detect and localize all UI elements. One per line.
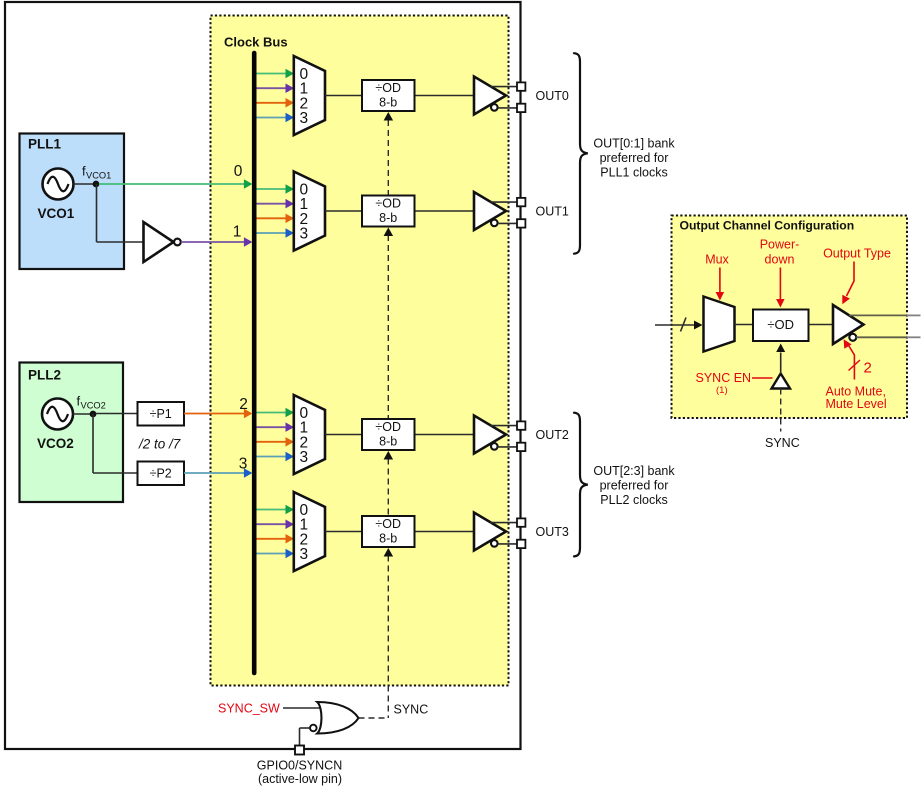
svg-text:2: 2: [239, 396, 248, 413]
svg-text:8-b: 8-b: [379, 96, 397, 110]
svg-text:÷OD: ÷OD: [375, 197, 401, 211]
svg-text:0: 0: [234, 163, 243, 180]
svg-text:Clock Bus: Clock Bus: [224, 35, 288, 50]
svg-text:÷P1: ÷P1: [150, 407, 172, 421]
svg-text:/2 to /7: /2 to /7: [138, 437, 181, 452]
svg-text:PLL1: PLL1: [28, 137, 61, 152]
svg-text:Mux: Mux: [705, 253, 729, 267]
svg-text:OUT[0:1] bank: OUT[0:1] bank: [593, 137, 675, 151]
svg-text:Output Channel Configuration: Output Channel Configuration: [680, 219, 855, 233]
svg-text:SYNC_SW: SYNC_SW: [218, 702, 280, 716]
svg-text:OUT2: OUT2: [536, 428, 569, 442]
svg-text:OUT0: OUT0: [536, 89, 569, 103]
svg-text:GPIO0/SYNCN: GPIO0/SYNCN: [257, 759, 342, 773]
svg-text:Output Type: Output Type: [823, 247, 891, 261]
svg-text:PLL1 clocks: PLL1 clocks: [600, 166, 667, 180]
svg-text:8-b: 8-b: [379, 211, 397, 225]
svg-text:VCO2: VCO2: [81, 401, 106, 411]
svg-text:PLL2 clocks: PLL2 clocks: [600, 493, 667, 507]
svg-text:VCO1: VCO1: [38, 206, 75, 221]
svg-text:Mute Level: Mute Level: [826, 397, 887, 411]
svg-text:(active-low pin): (active-low pin): [258, 772, 342, 786]
svg-text:÷P2: ÷P2: [150, 467, 172, 481]
svg-text:SYNC: SYNC: [394, 703, 429, 717]
svg-text:÷OD: ÷OD: [375, 420, 401, 434]
svg-text:down: down: [765, 253, 795, 267]
svg-text:OUT1: OUT1: [536, 205, 569, 219]
svg-text:3: 3: [239, 456, 248, 473]
svg-text:3: 3: [300, 546, 309, 563]
svg-text:8-b: 8-b: [379, 435, 397, 449]
svg-text:OUT[2:3] bank: OUT[2:3] bank: [593, 464, 675, 478]
svg-text:3: 3: [300, 110, 309, 127]
svg-text:VCO2: VCO2: [37, 436, 74, 451]
svg-text:SYNC: SYNC: [765, 436, 800, 450]
svg-text:SYNC EN: SYNC EN: [696, 371, 752, 385]
svg-text:OUT3: OUT3: [536, 525, 569, 539]
svg-text:8-b: 8-b: [379, 532, 397, 546]
svg-text:÷OD: ÷OD: [767, 317, 794, 332]
svg-text:2: 2: [864, 360, 872, 377]
svg-text:(1): (1): [716, 385, 728, 396]
svg-text:VCO1: VCO1: [86, 171, 111, 181]
svg-text:preferred for: preferred for: [600, 479, 669, 493]
svg-text:÷OD: ÷OD: [375, 517, 401, 531]
svg-text:3: 3: [300, 449, 309, 466]
svg-text:3: 3: [300, 226, 309, 243]
svg-text:PLL2: PLL2: [28, 368, 61, 383]
svg-text:1: 1: [233, 224, 242, 241]
svg-text:preferred for: preferred for: [600, 151, 669, 165]
svg-text:÷OD: ÷OD: [375, 81, 401, 95]
svg-text:Power-: Power-: [760, 238, 800, 252]
